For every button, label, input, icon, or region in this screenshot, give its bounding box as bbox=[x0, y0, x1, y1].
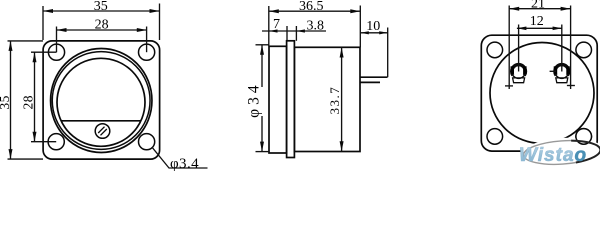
svg-text:36.5: 36.5 bbox=[299, 0, 324, 14]
svg-text:Wistao: Wistao bbox=[519, 145, 587, 166]
svg-text:φ3.4: φ3.4 bbox=[170, 156, 199, 172]
svg-text:35: 35 bbox=[94, 0, 108, 14]
svg-text:21: 21 bbox=[531, 0, 545, 12]
svg-text:7: 7 bbox=[273, 17, 280, 32]
svg-text:35: 35 bbox=[0, 95, 12, 110]
svg-text:28: 28 bbox=[95, 18, 109, 33]
svg-text:33.7: 33.7 bbox=[327, 86, 342, 115]
svg-text:φ34: φ34 bbox=[246, 81, 263, 117]
svg-text:3.8: 3.8 bbox=[307, 18, 325, 33]
svg-text:10: 10 bbox=[366, 19, 380, 34]
svg-text:12: 12 bbox=[530, 14, 544, 29]
svg-text:28: 28 bbox=[20, 95, 35, 110]
